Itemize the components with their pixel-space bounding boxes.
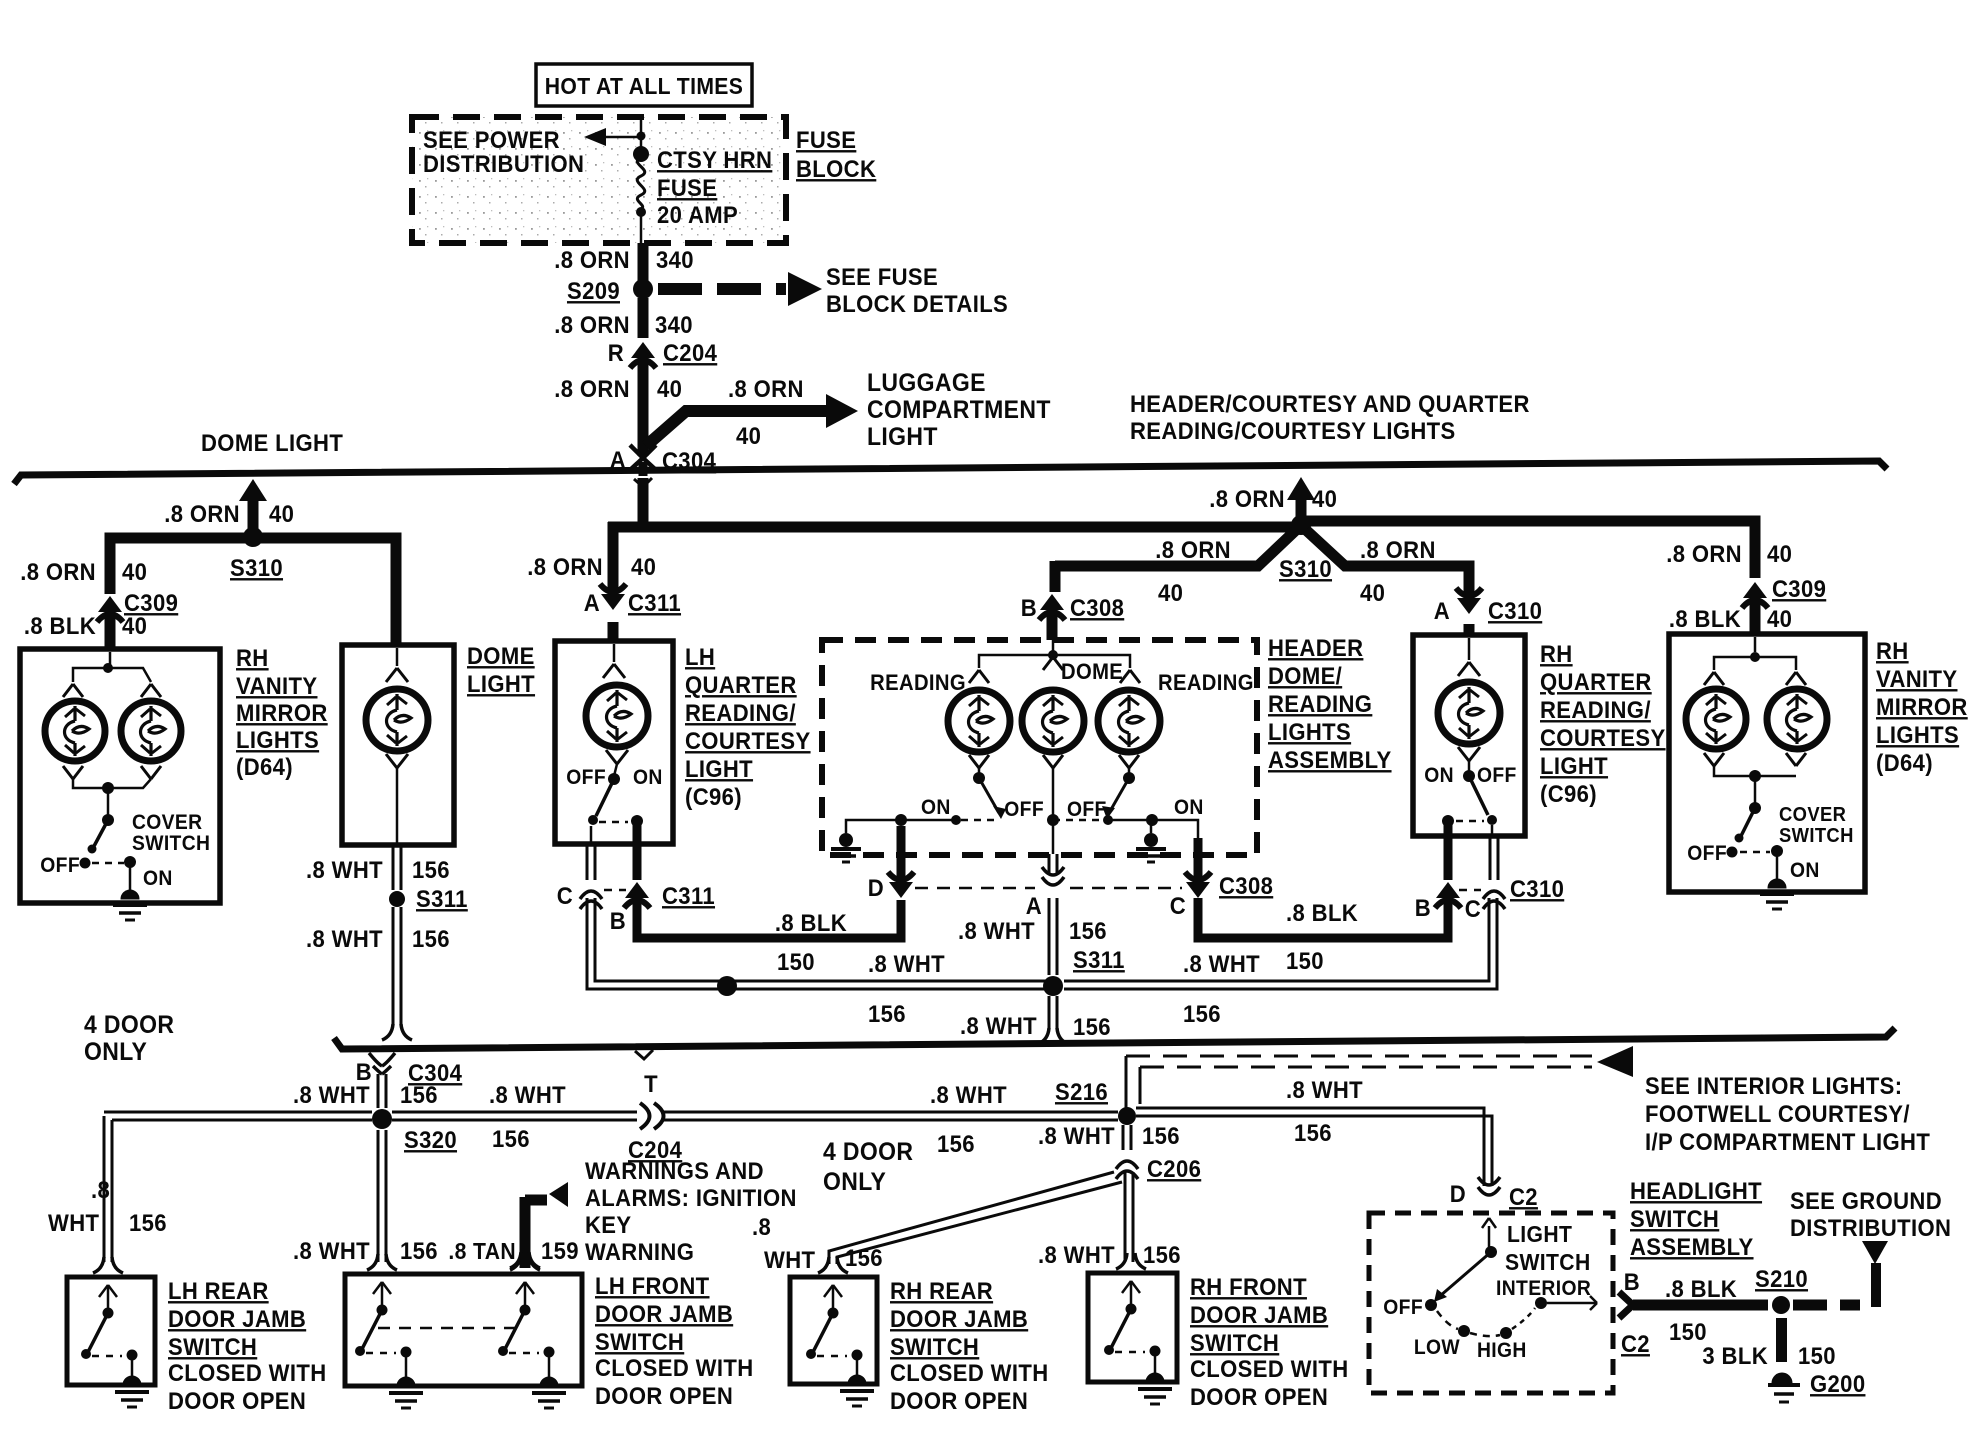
svg-text:SWITCH: SWITCH bbox=[1630, 1205, 1719, 1232]
svg-text:C: C bbox=[1465, 895, 1481, 922]
connector C304 pin A bbox=[630, 445, 656, 458]
svg-text:ON: ON bbox=[1790, 859, 1820, 882]
svg-text:ON: ON bbox=[1174, 796, 1204, 819]
svg-text:D: D bbox=[1450, 1180, 1466, 1207]
svg-text:SEE INTERIOR LIGHTS:: SEE INTERIOR LIGHTS: bbox=[1645, 1072, 1902, 1099]
svg-text:.8 WHT: .8 WHT bbox=[868, 950, 945, 977]
svg-text:COVER: COVER bbox=[1779, 804, 1846, 826]
svg-text:.8 BLK: .8 BLK bbox=[775, 909, 847, 936]
svg-text:.8 ORN: .8 ORN bbox=[527, 553, 603, 580]
fuse block dashed box bbox=[412, 117, 786, 243]
bus line 1 bbox=[14, 461, 1887, 484]
bulb E4 LH quarter bbox=[586, 685, 648, 747]
svg-text:LIGHT: LIGHT bbox=[1540, 752, 1608, 779]
svg-text:HEADLIGHT: HEADLIGHT bbox=[1630, 1177, 1762, 1204]
light switch internals OFF/LOW/HIGH/INTERIOR bbox=[1488, 1226, 1491, 1248]
svg-text:C308: C308 bbox=[1219, 872, 1273, 899]
bulb E9 vanity-right bbox=[1686, 689, 1746, 749]
svg-text:BLOCK DETAILS: BLOCK DETAILS bbox=[826, 290, 1008, 317]
svg-text:WHT: WHT bbox=[764, 1246, 815, 1273]
svg-text:HEADER: HEADER bbox=[1268, 634, 1363, 661]
wire .8 ORN 340 to C204 bbox=[638, 298, 649, 338]
svg-text:LH REAR: LH REAR bbox=[168, 1277, 269, 1304]
svg-text:4 DOOR: 4 DOOR bbox=[84, 1011, 174, 1039]
connector C308 pin B entry bbox=[1047, 614, 1058, 640]
bulb E3 dome light bbox=[366, 689, 428, 751]
wire .8 WHT 156 to LH rear door switch bbox=[103, 1116, 106, 1262]
svg-text:SEE FUSE: SEE FUSE bbox=[826, 263, 938, 290]
svg-text:.8 ORN: .8 ORN bbox=[554, 311, 630, 338]
bulb E7 header reading right bbox=[1098, 690, 1160, 752]
RH front door jamb switch box bbox=[1088, 1273, 1177, 1382]
connector C311 pins C and B bbox=[586, 844, 589, 880]
svg-text:156: 156 bbox=[1143, 1241, 1181, 1268]
wire .8 WHT 156 from S320 down to LH front switch bbox=[377, 1130, 380, 1262]
svg-text:C310: C310 bbox=[1488, 597, 1542, 624]
svg-text:S310: S310 bbox=[230, 554, 283, 581]
svg-text:C206: C206 bbox=[1147, 1155, 1201, 1182]
bulb E5 header reading left bbox=[948, 690, 1010, 752]
connector C308 pin D bbox=[897, 826, 906, 880]
switch (LH quarter) OFF/ON bbox=[608, 773, 620, 785]
connector C204 pin R bbox=[631, 342, 655, 358]
svg-text:.8 WHT: .8 WHT bbox=[293, 1237, 370, 1264]
svg-text:156: 156 bbox=[1294, 1119, 1332, 1146]
svg-text:150: 150 bbox=[1798, 1342, 1836, 1369]
wire .8 BLK from C308 C to C310 B bbox=[1198, 898, 1448, 938]
wire .8 ORN 40 from S310 to C310 A bbox=[1306, 530, 1469, 596]
wire .8 TAN 159 warning feed bbox=[520, 1197, 531, 1268]
svg-text:LIGHT: LIGHT bbox=[685, 755, 753, 782]
svg-text:.8 ORN: .8 ORN bbox=[164, 500, 240, 527]
svg-text:.8 BLK: .8 BLK bbox=[1286, 899, 1358, 926]
svg-text:C204: C204 bbox=[663, 339, 717, 366]
svg-text:LOW: LOW bbox=[1414, 1336, 1460, 1359]
svg-text:(D64): (D64) bbox=[1876, 749, 1933, 776]
svg-text:.8 WHT: .8 WHT bbox=[489, 1081, 566, 1108]
svg-text:MIRROR: MIRROR bbox=[236, 699, 328, 726]
connector C2 pin B bbox=[1619, 1292, 1633, 1318]
svg-text:S310: S310 bbox=[1279, 555, 1332, 582]
wire .8 ORN 40 to C304 bbox=[638, 362, 649, 456]
svg-text:DOOR JAMB: DOOR JAMB bbox=[595, 1300, 733, 1327]
header switches ON/OFF/OFF/ON bbox=[969, 755, 979, 768]
wire .8 WHT 156 from S216 to C2 D bbox=[1136, 1108, 1484, 1186]
svg-text:DOME: DOME bbox=[1061, 660, 1123, 684]
cover switch (right vanity) bbox=[1754, 776, 1757, 806]
splice S210 bbox=[1772, 1296, 1790, 1314]
svg-text:ALARMS: IGNITION: ALARMS: IGNITION bbox=[585, 1184, 797, 1211]
svg-text:156: 156 bbox=[129, 1209, 167, 1236]
svg-text:COMPARTMENT: COMPARTMENT bbox=[867, 396, 1051, 424]
dashed arrow SEE FUSE BLOCK DETAILS bbox=[658, 283, 786, 295]
svg-text:20 AMP: 20 AMP bbox=[657, 201, 738, 228]
svg-text:I/P COMPARTMENT LIGHT: I/P COMPARTMENT LIGHT bbox=[1645, 1128, 1930, 1155]
svg-text:S209: S209 bbox=[567, 277, 620, 304]
svg-text:.8 WHT: .8 WHT bbox=[1038, 1241, 1115, 1268]
svg-text:QUARTER: QUARTER bbox=[1540, 668, 1652, 695]
connector C310 pins B and C bbox=[1444, 836, 1453, 880]
svg-text:SWITCH: SWITCH bbox=[890, 1333, 979, 1360]
svg-text:156: 156 bbox=[868, 1000, 906, 1027]
splice S310 (left) bbox=[243, 527, 263, 547]
svg-text:DOME/: DOME/ bbox=[1268, 662, 1342, 689]
svg-text:RH REAR: RH REAR bbox=[890, 1277, 993, 1304]
LH rear door jamb switch box bbox=[67, 1277, 155, 1385]
svg-text:C309: C309 bbox=[1772, 575, 1826, 602]
svg-text:C308: C308 bbox=[1070, 594, 1124, 621]
C308 connector dashed tie line bbox=[915, 887, 1035, 890]
svg-text:R: R bbox=[608, 339, 624, 366]
header dome/reading lights assembly dashed box bbox=[822, 640, 1257, 855]
svg-text:156: 156 bbox=[937, 1130, 975, 1157]
wire .8 WHT 156 to 4-door bus bbox=[392, 907, 395, 1026]
wire .8 WHT 156 below dome light bbox=[392, 845, 395, 890]
splice S311 (left) bbox=[389, 891, 405, 907]
wire .8 BLK 40 into right vanity box bbox=[1750, 602, 1761, 634]
vanity-left internal wiring bbox=[109, 652, 112, 666]
splice S216 bbox=[1118, 1107, 1136, 1125]
svg-text:.8 ORN: .8 ORN bbox=[1155, 536, 1231, 563]
svg-text:LIGHTS: LIGHTS bbox=[1268, 718, 1351, 745]
connector C310 pin A bbox=[1457, 598, 1481, 614]
svg-text:156: 156 bbox=[412, 925, 450, 952]
svg-text:150: 150 bbox=[777, 948, 815, 975]
RH quarter reading/courtesy light box bbox=[1413, 635, 1525, 836]
arrow from S310 to bus bbox=[248, 500, 259, 537]
ground (header left) bbox=[846, 820, 901, 833]
svg-text:A: A bbox=[1434, 597, 1450, 624]
svg-text:156: 156 bbox=[412, 856, 450, 883]
svg-text:DOME LIGHT: DOME LIGHT bbox=[201, 429, 343, 456]
svg-text:340: 340 bbox=[655, 311, 693, 338]
svg-text:SWITCH: SWITCH bbox=[1505, 1249, 1591, 1275]
connector C304 pin B bbox=[369, 1053, 382, 1066]
wire .8 WHT 156 from C308 A to S311 bbox=[1048, 898, 1051, 975]
svg-text:SWITCH: SWITCH bbox=[132, 832, 210, 855]
ground (left vanity) bbox=[121, 890, 139, 899]
svg-text:40: 40 bbox=[657, 375, 682, 402]
svg-text:SWITCH: SWITCH bbox=[1779, 825, 1854, 847]
switch (RH quarter) ON/OFF bbox=[1463, 770, 1475, 782]
svg-text:.8 WHT: .8 WHT bbox=[1038, 1122, 1115, 1149]
RH rear door jamb switch box bbox=[790, 1277, 877, 1384]
svg-text:RH: RH bbox=[1540, 640, 1573, 667]
svg-text:DOOR JAMB: DOOR JAMB bbox=[1190, 1301, 1328, 1328]
svg-text:COURTESY: COURTESY bbox=[685, 727, 811, 754]
svg-text:A: A bbox=[1026, 892, 1042, 919]
svg-text:READING/COURTESY LIGHTS: READING/COURTESY LIGHTS bbox=[1130, 417, 1456, 444]
svg-text:RH: RH bbox=[236, 644, 269, 671]
svg-text:OFF: OFF bbox=[40, 854, 80, 877]
svg-text:150: 150 bbox=[1669, 1318, 1707, 1345]
splice S209 bbox=[633, 279, 653, 299]
wire .8 BLK 150 to S210 bbox=[1633, 1300, 1768, 1311]
svg-text:C: C bbox=[1170, 892, 1186, 919]
bulb E2 vanity-left bbox=[121, 701, 181, 761]
svg-text:DOOR OPEN: DOOR OPEN bbox=[1190, 1383, 1328, 1410]
svg-text:156: 156 bbox=[400, 1081, 438, 1108]
dashed option wires to interior lights bbox=[1126, 1055, 1592, 1058]
bulb E1 vanity-left bbox=[45, 701, 105, 761]
svg-text:LIGHT: LIGHT bbox=[467, 670, 535, 697]
svg-text:C310: C310 bbox=[1510, 875, 1564, 902]
svg-text:.8 WHT: .8 WHT bbox=[306, 925, 383, 952]
LH front door jamb switch box bbox=[345, 1274, 582, 1386]
bulb E6 header dome bbox=[1022, 690, 1084, 752]
svg-text:.8 TAN: .8 TAN bbox=[448, 1238, 516, 1264]
connector C309 (left) bbox=[98, 596, 122, 612]
svg-text:COVER: COVER bbox=[132, 811, 203, 834]
svg-text:C2: C2 bbox=[1509, 1183, 1538, 1210]
svg-text:ASSEMBLY: ASSEMBLY bbox=[1630, 1233, 1754, 1260]
svg-text:3 BLK: 3 BLK bbox=[1702, 1342, 1768, 1369]
svg-text:.8 WHT: .8 WHT bbox=[306, 856, 383, 883]
RH vanity mirror lights box (right) bbox=[1669, 634, 1865, 892]
svg-text:CLOSED WITH: CLOSED WITH bbox=[595, 1354, 754, 1381]
ground (header right) bbox=[1150, 820, 1153, 833]
svg-text:FUSE: FUSE bbox=[796, 126, 856, 153]
svg-text:C311: C311 bbox=[662, 882, 715, 909]
svg-text:159: 159 bbox=[541, 1237, 579, 1264]
svg-text:OFF: OFF bbox=[1477, 764, 1517, 787]
svg-text:OFF: OFF bbox=[1004, 798, 1044, 821]
svg-text:RH FRONT: RH FRONT bbox=[1190, 1273, 1307, 1300]
svg-text:DISTRIBUTION: DISTRIBUTION bbox=[1790, 1214, 1951, 1241]
svg-text:D: D bbox=[868, 874, 884, 901]
svg-text:.8: .8 bbox=[91, 1176, 110, 1203]
svg-text:DOOR JAMB: DOOR JAMB bbox=[890, 1305, 1028, 1332]
svg-text:LIGHTS: LIGHTS bbox=[236, 726, 319, 753]
svg-text:ONLY: ONLY bbox=[823, 1168, 886, 1196]
svg-text:40: 40 bbox=[1767, 540, 1792, 567]
svg-text:ONLY: ONLY bbox=[84, 1038, 147, 1066]
svg-text:ON: ON bbox=[921, 796, 951, 819]
svg-text:T: T bbox=[644, 1070, 658, 1097]
svg-text:.8: .8 bbox=[752, 1213, 771, 1240]
junction on 150/156 wire bbox=[717, 976, 737, 996]
ground (right vanity) bbox=[1768, 879, 1786, 888]
wire .8 BLK 40 into vanity box bbox=[105, 616, 116, 650]
svg-text:.8 ORN: .8 ORN bbox=[728, 375, 804, 402]
svg-text:WARNINGS AND: WARNINGS AND bbox=[585, 1157, 764, 1184]
svg-text:COURTESY: COURTESY bbox=[1540, 724, 1666, 751]
svg-text:150: 150 bbox=[1286, 947, 1324, 974]
svg-text:B: B bbox=[610, 907, 626, 934]
svg-text:.8 ORN: .8 ORN bbox=[1209, 485, 1285, 512]
svg-text:LUGGAGE: LUGGAGE bbox=[867, 369, 986, 397]
svg-text:(C96): (C96) bbox=[685, 783, 742, 810]
svg-text:ASSEMBLY: ASSEMBLY bbox=[1268, 746, 1392, 773]
svg-text:READING: READING bbox=[1158, 671, 1254, 695]
svg-text:S320: S320 bbox=[404, 1126, 457, 1153]
svg-text:LIGHTS: LIGHTS bbox=[1876, 721, 1959, 748]
connector C204 pin T bbox=[640, 1103, 650, 1129]
svg-text:B: B bbox=[1021, 594, 1037, 621]
svg-text:LH: LH bbox=[685, 643, 715, 670]
splice S320 bbox=[372, 1109, 392, 1129]
svg-text:156: 156 bbox=[1142, 1122, 1180, 1149]
svg-text:S216: S216 bbox=[1055, 1078, 1108, 1105]
svg-text:(C96): (C96) bbox=[1540, 780, 1597, 807]
svg-text:156: 156 bbox=[1069, 917, 1107, 944]
svg-text:40: 40 bbox=[1767, 605, 1792, 632]
wire .8 ORN 40 from S310 to C309 right bbox=[1301, 521, 1755, 578]
svg-text:ON: ON bbox=[633, 766, 663, 789]
wire .8 ORN 40 from S310 to C308 B bbox=[1055, 530, 1296, 566]
svg-text:KEY: KEY bbox=[585, 1211, 631, 1238]
wire .8 WHT 156 from S311 down to 4-door bus bbox=[1048, 996, 1051, 1030]
svg-text:OFF: OFF bbox=[566, 766, 606, 789]
svg-text:S210: S210 bbox=[1755, 1265, 1808, 1292]
header internal top distribution bbox=[1052, 640, 1055, 652]
ground G200 bbox=[1772, 1373, 1792, 1383]
svg-text:SEE POWER: SEE POWER bbox=[423, 126, 560, 153]
splice S311 (center) bbox=[1043, 976, 1063, 996]
svg-text:40: 40 bbox=[1158, 579, 1183, 606]
bus line 2 (4 door) bbox=[334, 1028, 1895, 1049]
svg-text:OFF: OFF bbox=[1067, 798, 1107, 821]
svg-text:VANITY: VANITY bbox=[1876, 665, 1957, 692]
svg-text:.8 WHT: .8 WHT bbox=[930, 1081, 1007, 1108]
svg-text:READING: READING bbox=[870, 671, 966, 695]
RH vanity mirror lights box (left) bbox=[20, 649, 220, 903]
svg-text:RH: RH bbox=[1876, 637, 1909, 664]
svg-text:B: B bbox=[1624, 1268, 1640, 1295]
svg-text:C: C bbox=[557, 882, 573, 909]
svg-text:C2: C2 bbox=[1621, 1330, 1650, 1357]
svg-text:156: 156 bbox=[400, 1237, 438, 1264]
wire .8 WHT 150 from S311 to C310 C bbox=[1064, 898, 1489, 981]
svg-text:LH FRONT: LH FRONT bbox=[595, 1272, 709, 1299]
svg-text:G200: G200 bbox=[1810, 1370, 1865, 1397]
svg-text:.8 WHT: .8 WHT bbox=[958, 917, 1035, 944]
svg-text:.8 WHT: .8 WHT bbox=[1183, 950, 1260, 977]
svg-text:156: 156 bbox=[845, 1244, 883, 1271]
svg-text:C311: C311 bbox=[628, 589, 681, 616]
connector C308 pin A bbox=[1052, 820, 1055, 854]
svg-text:156: 156 bbox=[1073, 1013, 1111, 1040]
svg-text:156: 156 bbox=[1183, 1000, 1221, 1027]
splice S310 (right) bbox=[1291, 515, 1311, 535]
svg-text:CLOSED WITH: CLOSED WITH bbox=[168, 1359, 327, 1386]
wire .8 ORN 40 horizontal distribution (left) bbox=[110, 538, 396, 644]
svg-text:LIGHT: LIGHT bbox=[867, 423, 938, 451]
svg-text:WHT: WHT bbox=[48, 1209, 99, 1236]
svg-text:DOME: DOME bbox=[467, 642, 535, 669]
svg-text:.8 WHT: .8 WHT bbox=[960, 1012, 1037, 1039]
svg-text:40: 40 bbox=[1312, 485, 1337, 512]
svg-text:B: B bbox=[1415, 894, 1431, 921]
svg-text:DOOR JAMB: DOOR JAMB bbox=[168, 1305, 306, 1332]
arrow from S310-right to bus bbox=[1296, 500, 1307, 525]
svg-text:CLOSED WITH: CLOSED WITH bbox=[890, 1359, 1049, 1386]
svg-text:SEE GROUND: SEE GROUND bbox=[1790, 1187, 1942, 1214]
bulb E8 RH quarter bbox=[1438, 682, 1500, 744]
svg-text:40: 40 bbox=[122, 612, 147, 639]
svg-text:40: 40 bbox=[736, 422, 761, 449]
wire .8 WHT 156 from S320 to C204 T bbox=[392, 1111, 637, 1114]
svg-text:S311: S311 bbox=[416, 885, 468, 912]
svg-text:VANITY: VANITY bbox=[236, 672, 317, 699]
svg-text:OFF: OFF bbox=[1383, 1296, 1423, 1319]
wire .8 WHT 156 to RH rear door switch bbox=[829, 1172, 1114, 1264]
svg-text:SWITCH: SWITCH bbox=[168, 1333, 257, 1360]
wire .8 WHT 156 from C204 T to S216 bbox=[664, 1111, 1118, 1114]
LH quarter reading/courtesy light box bbox=[555, 641, 673, 844]
svg-text:.8 ORN: .8 ORN bbox=[554, 375, 630, 402]
svg-text:LIGHT: LIGHT bbox=[1507, 1221, 1572, 1247]
svg-text:QUARTER: QUARTER bbox=[685, 671, 797, 698]
connector C311 pin A bbox=[601, 594, 625, 610]
svg-text:READING/: READING/ bbox=[1540, 696, 1651, 723]
connector C2 pin D bbox=[1478, 1187, 1500, 1195]
bulb E10 vanity-right bbox=[1767, 689, 1827, 749]
wire .8 WHT 156 from S216 down to C206 bbox=[1122, 1125, 1125, 1150]
branch wire + arrow to luggage compartment light bbox=[646, 411, 830, 446]
svg-text:.8 ORN: .8 ORN bbox=[20, 558, 96, 585]
svg-text:MIRROR: MIRROR bbox=[1876, 693, 1968, 720]
svg-text:156: 156 bbox=[492, 1125, 530, 1152]
svg-text:READING: READING bbox=[1268, 690, 1372, 717]
dome light box bbox=[342, 645, 454, 845]
svg-text:40: 40 bbox=[1360, 579, 1385, 606]
svg-text:HIGH: HIGH bbox=[1477, 1339, 1527, 1362]
connector C308 pin C bbox=[1152, 820, 1198, 838]
svg-text:CLOSED WITH: CLOSED WITH bbox=[1190, 1355, 1349, 1382]
wire .8 WHT 156 to RH front door switch bbox=[1124, 1172, 1127, 1262]
wire .8 WHT from C311 C to S311 bbox=[587, 898, 1048, 989]
cover switch (left vanity) bbox=[107, 788, 110, 818]
svg-text:FOOTWELL COURTESY/: FOOTWELL COURTESY/ bbox=[1645, 1100, 1910, 1127]
svg-text:.8 BLK: .8 BLK bbox=[1669, 605, 1741, 632]
svg-text:READING/: READING/ bbox=[685, 699, 796, 726]
connector C206 bbox=[1116, 1161, 1138, 1169]
svg-text:340: 340 bbox=[656, 246, 694, 273]
light switch dashed box bbox=[1369, 1213, 1613, 1393]
svg-text:CTSY HRN: CTSY HRN bbox=[657, 146, 772, 173]
fuse F CTSY HRN FUSE 20 AMP bbox=[640, 117, 643, 152]
hot-at-all-times box bbox=[536, 64, 752, 106]
wire .8 WHT 156 from C304 B to S320 bbox=[377, 1074, 380, 1108]
svg-text:40: 40 bbox=[631, 553, 656, 580]
svg-text:.8 WHT: .8 WHT bbox=[293, 1081, 370, 1108]
svg-text:.8 WHT: .8 WHT bbox=[1286, 1076, 1363, 1103]
svg-text:ON: ON bbox=[143, 867, 173, 890]
svg-text:.8 BLK: .8 BLK bbox=[24, 612, 96, 639]
svg-text:.8 ORN: .8 ORN bbox=[1360, 536, 1436, 563]
svg-text:.8 BLK: .8 BLK bbox=[1665, 1275, 1737, 1302]
svg-text:DISTRIBUTION: DISTRIBUTION bbox=[423, 150, 584, 177]
svg-text:ON: ON bbox=[1424, 764, 1454, 787]
connector C309 (right) bbox=[1743, 582, 1767, 598]
wire down to C311 A bbox=[608, 522, 619, 592]
wire .8 ORN 340 from fuse bbox=[638, 243, 649, 281]
arrow to power distribution bbox=[603, 136, 642, 139]
svg-text:OFF: OFF bbox=[1687, 842, 1727, 865]
svg-text:DOOR OPEN: DOOR OPEN bbox=[168, 1387, 306, 1414]
svg-text:INTERIOR: INTERIOR bbox=[1496, 1277, 1591, 1300]
wire 3 BLK 150 to G200 bbox=[1776, 1318, 1787, 1362]
svg-text:A: A bbox=[584, 589, 600, 616]
svg-text:HEADER/COURTESY AND QUARTER: HEADER/COURTESY AND QUARTER bbox=[1130, 390, 1530, 417]
svg-text:S311: S311 bbox=[1073, 946, 1125, 973]
wire .8 ORN 40 from C304 to S310-right bbox=[638, 478, 649, 532]
dashed wire to ground distribution bbox=[1793, 1300, 1860, 1311]
svg-text:SWITCH: SWITCH bbox=[1190, 1329, 1279, 1356]
svg-text:.8 ORN: .8 ORN bbox=[554, 246, 630, 273]
wire .8 BLK from C311 B to C308 D bbox=[637, 898, 901, 938]
